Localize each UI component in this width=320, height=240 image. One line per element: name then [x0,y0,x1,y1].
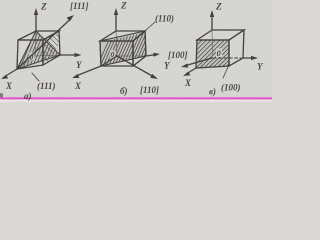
Z axis (a) [34,8,38,31]
Z axis (b) [114,8,118,31]
cube b: front face [100,41,133,66]
leader line to (100) label [223,67,228,78]
magenta separator stripe [0,97,272,99]
origin halo (a) [29,52,35,60]
plane (111) triangle [17,31,60,69]
origin halo [216,49,222,58]
cube v: top face [197,30,244,40]
cube v: hidden back-left edge [211,30,214,56]
cube a: right face [43,31,60,65]
cube a: front face [17,40,43,69]
plane (100) shading on front face [196,40,229,68]
plane (110) shading [100,31,146,66]
plane (111) shading [17,31,60,69]
leader line to (111) label [32,73,39,81]
Y axis (v) [243,56,258,60]
paper grain overlay [0,0,272,102]
cube b: top face [100,31,145,41]
pale pink zone below stripe [0,99,272,102]
dark smudge bottom-left [0,93,3,97]
cube b: hidden edges [101,31,146,66]
X axis (v) [183,68,196,76]
cube a: right face light hatching [44,33,60,61]
plane (100) hatching on front face [197,41,229,68]
direction [111] arrow (a) [17,15,74,69]
pale pink transition above stripe [0,96,272,97]
Y axis (b) [146,53,160,57]
direction [110] arrow (b) [116,56,158,80]
plane (111) hatching [13,21,70,70]
direction [100] arrow (v) [181,58,212,68]
Y axis (a) [60,53,82,57]
cube a: top face [18,31,59,40]
plane (110) hatching [97,30,159,67]
leader line to (110) label [146,22,155,30]
plane (110) quad [100,31,146,66]
cube v: right face [229,30,244,66]
cube b: right face [133,31,146,66]
Z axis (v) [210,10,214,30]
X axis (a) [1,69,17,79]
cube v: front face [196,40,229,68]
cube a: hidden edges [17,31,60,69]
paper background [0,0,272,102]
Y axis dashed hidden part (v) [213,57,241,59]
origin halo (b) [110,50,116,58]
X axis (b) [72,56,117,78]
